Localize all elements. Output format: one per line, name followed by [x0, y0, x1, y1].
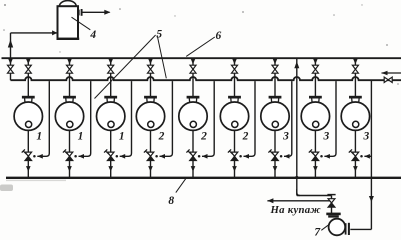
svg-text:3: 3 [363, 130, 370, 142]
svg-text:3: 3 [282, 130, 289, 142]
svg-text:3: 3 [323, 130, 330, 142]
svg-text:1: 1 [119, 130, 125, 142]
svg-text:На купаж: На купаж [270, 204, 322, 216]
svg-text:1: 1 [78, 130, 84, 142]
svg-text:4: 4 [89, 29, 96, 41]
svg-text:6: 6 [216, 30, 222, 42]
svg-text:1: 1 [36, 130, 42, 142]
svg-text:5: 5 [156, 29, 162, 41]
svg-text:2: 2 [200, 130, 207, 142]
svg-text:2: 2 [242, 130, 249, 142]
svg-text:8: 8 [168, 195, 174, 207]
svg-text:2: 2 [158, 130, 165, 142]
